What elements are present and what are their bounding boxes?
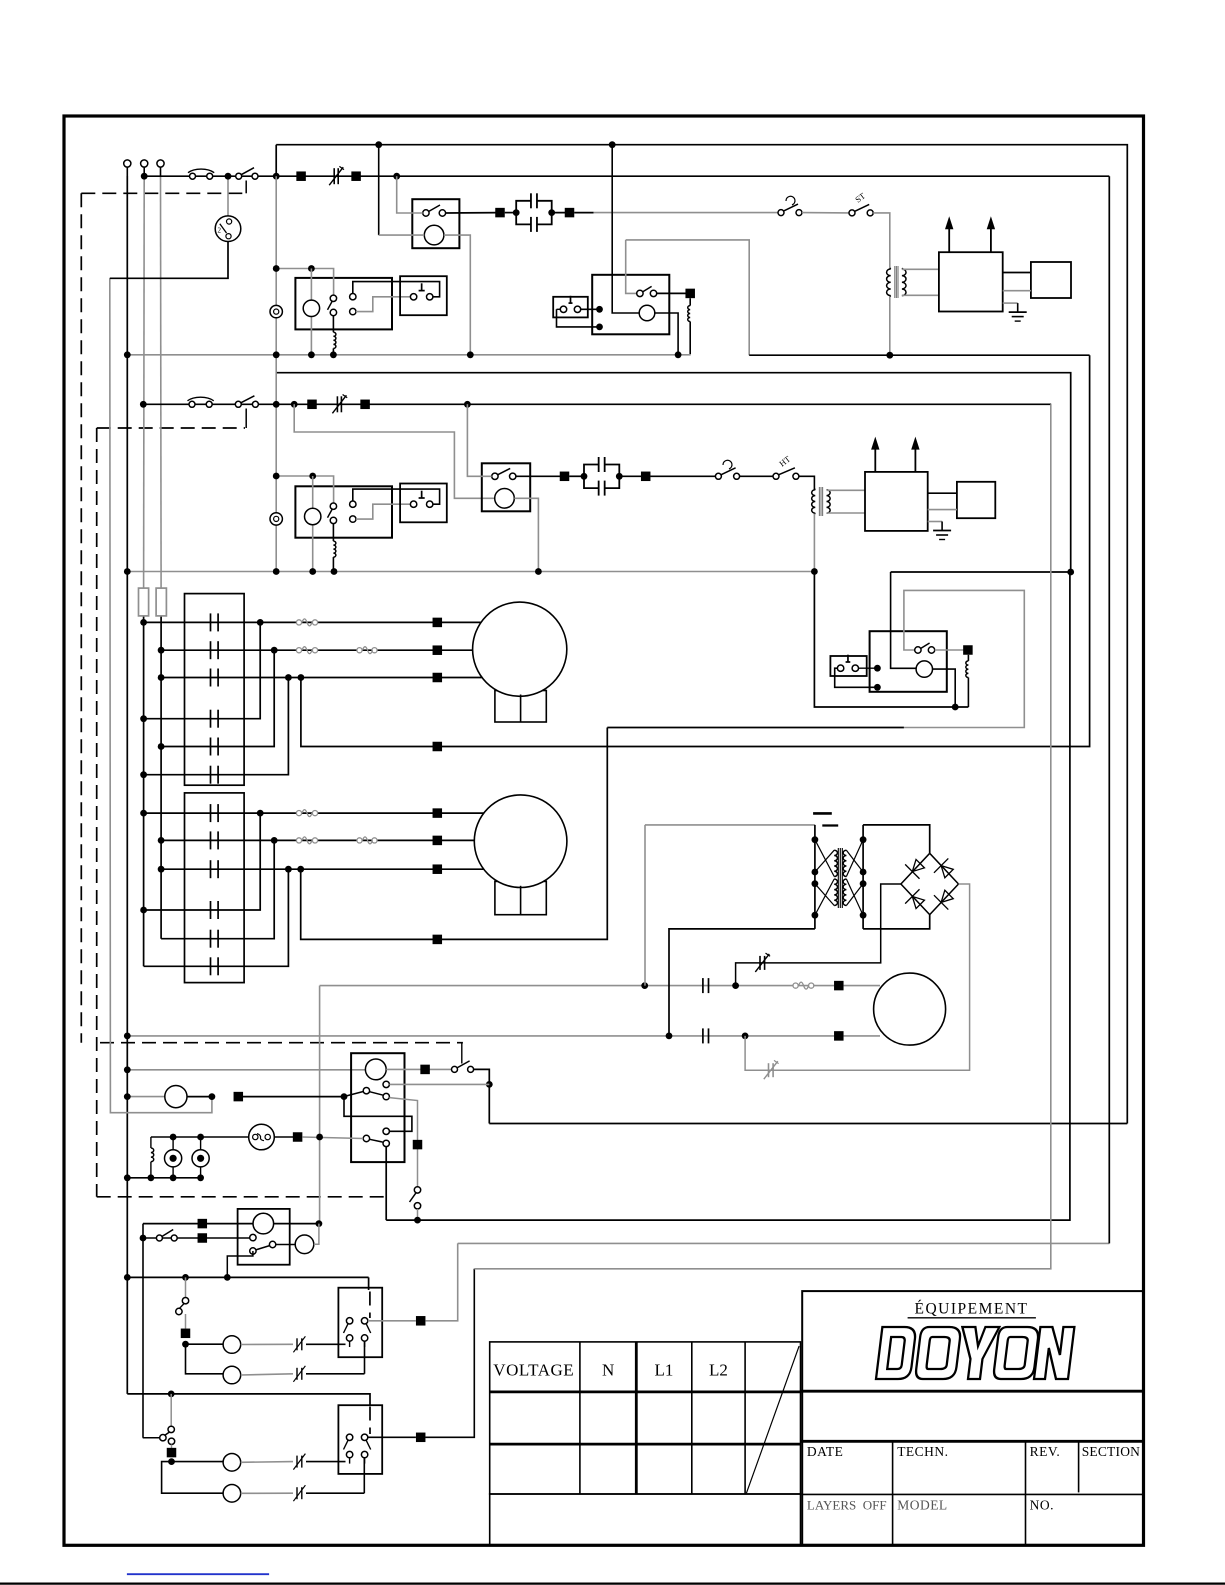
wires module to burner (section2) (928, 493, 957, 509)
R2 aux-a wire loop to pushbutton PB3 (353, 489, 440, 504)
node dot y1035.9 x669 (666, 1033, 673, 1040)
bus x110 from fan switch (110, 278, 212, 1112)
motor M1 circle (473, 602, 567, 696)
supply terminal L3 (157, 160, 164, 176)
oven-light switch return link (227, 1251, 253, 1277)
dashed enclosure 2 (mechanical link, section 2) (97, 428, 386, 1197)
node dot x171.5 y1461.6 (168, 1458, 175, 1465)
RD common terminal to riser (gray) (383, 1081, 489, 1087)
gray control wire y1069.8 from bus (127, 1069, 365, 1071)
hood feed wire y985.6 (gray) (320, 985, 834, 987)
node dot y404.3 x294.2 (291, 401, 298, 408)
oven light lamp circle (253, 1213, 274, 1234)
NC slash contact on y1070.2 (764, 1060, 779, 1079)
terminal square y176 x301 (296, 171, 306, 181)
node dot y176 x276.2 (273, 173, 280, 180)
TC bottom wire to bridge (863, 915, 930, 929)
R1 contact lower lead + heater coil to rail (333, 316, 336, 355)
label TECHN. (897, 1444, 948, 1459)
series capacitor on y1035.9 (703, 1028, 709, 1043)
voltage table bottom row box (490, 1494, 801, 1545)
svg-text:2: 2 (218, 227, 222, 235)
RD contact1 (346, 1088, 389, 1100)
buzzer resistor coil (151, 1137, 154, 1178)
bridge diode D4 (934, 887, 956, 909)
node dot x319.6 y1137 (316, 1134, 323, 1141)
dashed link to thermostat switch (100, 1042, 463, 1044)
socket circle (295, 1235, 314, 1254)
contact plates r9 (211, 860, 219, 878)
label REV. (1030, 1444, 1061, 1459)
contactor row r11 (links up to r8) (161, 840, 274, 938)
contactor row r3 wire ->motor1 (158, 674, 437, 681)
voltage column divider 1 (579, 1342, 581, 1494)
NC slash on wire A1 (293, 1336, 305, 1352)
phase indicator lamp section2 (270, 513, 282, 525)
node dot x417.5 y1220.1 (414, 1217, 421, 1224)
R2 contact lower lead + heater coil to rail (333, 524, 335, 572)
wire y476.3 to switches (section2) (650, 475, 715, 477)
node dot y572 x1070.7 (1067, 569, 1074, 576)
svg-text:DATE: DATE (807, 1444, 844, 1459)
NC slash on wire B1 (293, 1454, 305, 1470)
bridge diode D3 (905, 889, 927, 911)
contact plates r10 (211, 901, 219, 919)
terminal square r2 (433, 645, 443, 655)
bus L2 (x160.4) upper (160, 176, 163, 588)
RD contact2 output riser x386.2 to y1220.1 (385, 1147, 387, 1221)
lamp wire A1 y1344.2 (186, 1336, 346, 1354)
terminal square x690.2 y293.4 (685, 289, 695, 299)
key switch output to square (274, 1136, 297, 1138)
burner box (section2) (957, 482, 995, 518)
pushbutton PB1 box (section1) (400, 276, 447, 315)
dashed enclosure 1 (mechanical link, fan section) (81, 193, 245, 1042)
hyperlink underline (blue) (127, 1573, 269, 1575)
PB4 terminal dots and wiring (835, 665, 881, 691)
TC bottom-left return to y928.9 wire (669, 929, 815, 1036)
node dot on y144.7 at x612.2 (609, 141, 616, 148)
label VOLTAGE (493, 1361, 574, 1380)
terminal square x185.5 y1333.3 (181, 1329, 191, 1339)
oven light internal switch (250, 1234, 276, 1254)
NC slash on wire A2 (293, 1366, 305, 1382)
interlock switch (vertical) x417.5 (410, 1187, 421, 1209)
feed to K1 coil from y144.7 (riser x378.7) (379, 145, 425, 235)
overload heater r2b (357, 647, 377, 654)
M1C contact (637, 286, 657, 296)
node dot y1069.8 x127.3 (124, 1066, 131, 1073)
contact plates r6 (211, 766, 219, 784)
label L1 (655, 1361, 674, 1380)
RD switch output to riser x489.3 (474, 1069, 490, 1123)
R1 coil circle (303, 300, 319, 316)
svg-text:LAYERS OFF: LAYERS OFF (807, 1498, 887, 1513)
supply terminal L2 (141, 160, 148, 176)
thermostat switch ST (section1) (849, 204, 873, 216)
terminal square x202.3 y1238 (198, 1233, 208, 1243)
node dots y1277.4 (124, 1274, 231, 1281)
main loop wire y1123.5 to x1127.3 (489, 1123, 1127, 1125)
R2 coil riser x312.7 (312, 476, 314, 572)
node dot x955.2 y707 (952, 704, 959, 711)
terminal square y1035.9 (834, 1031, 844, 1041)
node dot y268.5 x311.4 (308, 265, 315, 272)
K3 contact (915, 643, 935, 653)
relay K3 feed from y572 corner (891, 572, 917, 668)
wire from HT down to transformer T2 primary (799, 476, 814, 489)
TC primary winding lower (834, 879, 837, 906)
riser x814.4 from rail down to relay K3 return (814, 572, 968, 708)
node dot y985.6 x644.7 (641, 982, 648, 989)
node dot y1035.9 x745.1 (742, 1033, 749, 1040)
box B contacts (344, 1434, 371, 1463)
R1 aux-a wire loop to pushbutton PB1 (353, 282, 440, 297)
contact box A (338, 1288, 382, 1358)
node dots y1177.8 (124, 1174, 204, 1181)
node dot y1096.6 x127.3 (124, 1093, 131, 1100)
label NO. (1030, 1498, 1054, 1513)
overload heater r8b (357, 837, 377, 844)
lamp wire B2 y1493.2 (162, 1462, 365, 1503)
overload heater r7 (296, 810, 317, 817)
wires module to burner (section1) (1003, 273, 1031, 291)
terminal square x500 y212.6 (495, 208, 505, 218)
bridge left output via NC contact to y985.6 (736, 884, 901, 986)
title block thin separator 3 (802, 1493, 1143, 1495)
oven light box (238, 1209, 290, 1265)
node dot y268.5 x276.2 (273, 265, 280, 272)
overload heater r2a (296, 647, 317, 654)
node dot x185.5 y1344.2 (182, 1341, 189, 1348)
terminal square y746.5 (433, 742, 443, 752)
pilot lamp (steam) circle (127, 1086, 212, 1108)
terminal square y176 x356 (351, 171, 361, 181)
RD contact2 top terminal (383, 1128, 389, 1134)
voltage column divider 4 (744, 1342, 746, 1494)
wire section1 top loop y144.7 (276, 145, 1127, 1124)
gray wire to RD contact2 (302, 1137, 363, 1139)
rail wire y354.8 (section1 bottom, gray) (127, 354, 690, 356)
interlock wire from r9 via y939.4 to section3 loop (301, 869, 437, 939)
door switch on y1238 (156, 1230, 177, 1242)
contactor block 1 rectangle (185, 594, 245, 786)
TC secondary winding lower (843, 879, 846, 906)
gray wire y1243.4 to riser x1110.1 (458, 1242, 1110, 1244)
relay K1 pilot contact (423, 205, 446, 216)
limit switch S2b (715, 460, 739, 479)
node dot x489.3 y1084.4 (486, 1081, 493, 1088)
electrode arrow 1 (section2) (871, 437, 879, 472)
riser x612.2 from y144.7 into coil box (612, 145, 639, 313)
relay K3 box (870, 631, 947, 692)
rail y355.2 black segment right (749, 354, 1089, 356)
gray branch y239.9 from y212.6 wire region (626, 240, 637, 294)
terminal square y404.3 x365 (360, 400, 370, 410)
terminal square x967.9 y650 (963, 645, 973, 655)
contact box B (338, 1405, 382, 1474)
svg-text:VOLTAGE: VOLTAGE (493, 1361, 574, 1380)
R1 aux-b wire to pushbutton PB1 (356, 297, 410, 312)
contactor coil box M1C (section1) (592, 275, 669, 335)
M1C circle output to rail (655, 313, 678, 355)
node dot bus L1 y404.3 (140, 401, 147, 408)
terminal square x417.5 y1144.6 (413, 1140, 423, 1150)
spark module box (section2) (865, 472, 928, 531)
svg-text:SECTION: SECTION (1082, 1444, 1140, 1459)
label ST (853, 190, 868, 204)
bridge right output via breaker to y1035.9 (745, 884, 970, 1070)
RD coil circle (365, 1059, 386, 1080)
label LAYERS OFF (807, 1498, 887, 1513)
svg-text:TECHN.: TECHN. (897, 1444, 948, 1459)
run capacitor pair C2 (section2) (581, 457, 623, 496)
voltage table thick row line 1 (490, 1391, 801, 1394)
black wire y1220.1 to riser x1069.9 (386, 572, 1070, 1220)
motor M1 feet divider (520, 695, 522, 723)
contactor row r12 (links up to r9) (144, 869, 289, 966)
T1 primary continues down to rail y354.8 (889, 297, 891, 355)
fuse FU2 on y404.3 (188, 397, 214, 407)
mech-link bracket at switch S1a (245, 181, 247, 194)
relay RD box (351, 1053, 404, 1162)
contact plates r4 (211, 710, 219, 728)
contact plates r3 (211, 669, 219, 687)
terminal square r9 (433, 864, 443, 874)
motor M1 mounting feet (495, 691, 546, 723)
contactor row r2 wire L2->motor1 (158, 647, 437, 654)
node dot y404.3 x276.2 (273, 401, 280, 408)
bridge diode D2 (934, 858, 956, 880)
burner box (section1) (1031, 262, 1071, 298)
node dot y1096.6 x211.9 (209, 1093, 216, 1100)
disconnect switch S2a on y404.3 (235, 396, 258, 408)
title block thick separator 2 (801, 1440, 1144, 1443)
contact plates r1 (211, 613, 219, 631)
title block thick separator 1 (801, 1390, 1144, 1393)
feed to K2 contact from y404.3 (gray riser x467.4) (467, 404, 491, 476)
electrode arrow 2 (section2) (911, 437, 919, 472)
wire y1268.8 to riser x1051.2 (gray) (474, 404, 1051, 1269)
DOYON logo outline letters (876, 1327, 1074, 1379)
voltage table thick row line 2 (490, 1443, 801, 1446)
voltage column divider 3 (691, 1342, 693, 1494)
R2 aux-b wire to pushbutton PB3 (356, 504, 410, 519)
contact plates r2 (211, 641, 219, 659)
feed to K1 contact from y176 (gray riser x396.7) (397, 176, 423, 213)
wire y212.6 to limit switches (574, 212, 778, 214)
gray wire y824.9 to transformer left bus (645, 824, 815, 826)
node dot x318.9 y1223.6 (316, 1220, 323, 1227)
R2 auxiliary contact a (350, 501, 356, 507)
contact plates r11 (211, 930, 219, 948)
transformer T2 secondary winding (827, 490, 831, 514)
node dot x143 y1238 (140, 1235, 147, 1242)
terminal square x297.6 y1137 (293, 1132, 303, 1142)
terminal square y985.6 (834, 981, 844, 991)
ground symbol (section2) (928, 522, 951, 540)
buzzer B1 (165, 1137, 182, 1178)
contact plates r7 (211, 804, 219, 822)
M1C coil circle (639, 305, 655, 321)
terminal square x425 y1069.4 (420, 1065, 430, 1075)
oven light switch wire y1238 (143, 1237, 250, 1239)
bus L2 (x160.4) lower (160, 616, 162, 939)
T2 primary continues to rail dot y571.5 (813, 514, 815, 572)
TC left cross-links (815, 840, 834, 916)
relay R2 box (section2 wide relay) (295, 486, 392, 537)
node dot y476 x276.2 (273, 473, 280, 480)
K1 coil output to bottom rail (444, 235, 470, 355)
wire y1277.4 drop into contact box A (369, 1277, 370, 1318)
node dot y404.3 x467.4 (464, 401, 471, 408)
ground symbol (section1) (1003, 303, 1027, 321)
rail wire y571.5 (section2 bottom, gray) (127, 571, 814, 573)
motor M2 feet divider (520, 886, 522, 915)
K1 contact output wire to capacitor pair (446, 212, 500, 214)
wire y1393.9 (group B feed) (127, 1394, 370, 1405)
node dots on rail y571.5 (124, 568, 818, 575)
wire lamp to RD contact1 (243, 1093, 347, 1100)
wire section2 top loop y372.7 (277, 373, 1071, 572)
terminal square y939.4 (433, 935, 443, 945)
wire from ST switch down to transformer T1 primary (873, 213, 890, 268)
T2 secondary wires to spark module 2 (827, 490, 866, 513)
node dot y476 x312.7 (309, 473, 316, 480)
motor M2 mounting feet (495, 881, 546, 914)
K3 contact output to terminal square (935, 649, 968, 651)
buzzer bottom wire y1177.8 (127, 1177, 200, 1179)
wire to socket circle (276, 1244, 295, 1246)
K3 coil circle (916, 661, 932, 677)
key switch circle (249, 1124, 275, 1150)
contactor row r10 (links up to r7) (140, 813, 260, 913)
PB2 terminal dots and wiring (557, 306, 603, 330)
contactor block 2 rectangle (185, 793, 245, 983)
pushbutton PB3 box (section2) (400, 484, 447, 523)
spark module box (section1) (939, 252, 1003, 311)
title block column REV/SECTION (1078, 1441, 1080, 1492)
pushbutton PB4 box (section3) (830, 655, 866, 676)
node dot y985.6 x735.6 (732, 982, 739, 989)
voltage table diagonal (746, 1346, 799, 1493)
svg-text:NO.: NO. (1030, 1498, 1054, 1513)
link from node x318.9 down to socket (314, 1224, 319, 1245)
contactor row r8 wire L2->motor2 (158, 837, 437, 844)
bus L1 (x143.7) upper (143, 176, 146, 588)
safety relay K1 box (section1) (412, 199, 459, 248)
black wire y572 right segment (891, 571, 1071, 573)
R2 coil circle (305, 508, 321, 524)
TC core (838, 848, 842, 908)
fan speed selector switch (2-speed) (215, 176, 241, 241)
hood feed riser x319.6 down to oven-light node (319, 986, 321, 1224)
heater circuit wire y746.5 to x1089.6 riser (442, 355, 1090, 746)
contact plates r8 (211, 831, 219, 849)
transformer T2 core (819, 487, 822, 516)
wire y1223.6 into oven-light box (143, 1223, 253, 1225)
interlock wire y939.4 to riser x607.3 (442, 728, 607, 940)
brand underline (908, 1317, 1036, 1319)
hood motor circle (874, 973, 946, 1045)
overload heater r8a (296, 837, 317, 844)
R2 auxiliary contact b (350, 516, 356, 522)
TC primary winding upper (834, 850, 837, 876)
title block column DATE/TECHN (892, 1441, 894, 1545)
relay K1 coil circle (424, 225, 444, 245)
bridge rectifier diamond (901, 853, 959, 914)
bus N (x127) (126, 176, 128, 1394)
fuse F1 (139, 588, 149, 616)
R1 coil riser x311.4 (310, 269, 312, 355)
wire A2 riser into box A (364, 1342, 366, 1374)
gray wire y239.9 to right loop (626, 240, 750, 355)
K3 relay coil (inductor) (966, 655, 969, 707)
terminal square x564.5 y476.3 (560, 472, 570, 482)
fan switch drop wire to x110 rail (110, 242, 228, 279)
label DATE (807, 1444, 844, 1459)
fuse FU1 on y176 (188, 169, 214, 179)
K2 contact output to capacitor pair (516, 475, 565, 477)
M1C contact output to coil terminal square (657, 292, 691, 294)
contactor row r6 (links up to r3) (140, 678, 288, 779)
terminal square r1 (433, 618, 443, 628)
node dot y1393.9 x171.2 (168, 1391, 175, 1398)
riser x276.2 section1 (to phase lamp and bottom rail) (275, 176, 277, 571)
terminal square x202.3 y1223.6 (198, 1219, 208, 1229)
page bottom edge line (0, 1582, 1225, 1584)
oven light feed bus x143 (local) (142, 1224, 144, 1366)
phase indicator lamp section1 (270, 305, 282, 317)
electrode arrow 2 (section1) (987, 216, 995, 252)
contactor row r9 wire ->motor2 (158, 866, 437, 873)
riser x1109.3 (to section1 line y176) (1108, 176, 1110, 1243)
contactor row r1 wire L1->motor1 (140, 619, 436, 626)
hood wire 2 y1035.9 (gray) (127, 1035, 834, 1037)
voltage table outline (490, 1342, 801, 1494)
transformer T1 secondary winding (902, 268, 906, 296)
transformer T1 primary winding (887, 268, 891, 297)
lamp wire B1 y1461.6 (172, 1454, 346, 1472)
selector switch A (176, 1277, 189, 1328)
overload heater on y985.6 (793, 982, 814, 989)
transformer T2 primary winding (812, 489, 816, 515)
series capacitor on y985.6 (703, 978, 709, 993)
R2 vertical contact (328, 503, 337, 524)
svg-text:MODEL: MODEL (897, 1498, 948, 1513)
selector switch B (143, 1366, 175, 1448)
TC right bus taps (860, 836, 867, 918)
NC contact with slash on y404.3 (332, 395, 347, 414)
node dot y176 x228 (225, 173, 232, 180)
terminal square y1096.6 x238.3 (234, 1092, 244, 1102)
wire section1 line y176 left span (144, 175, 1109, 177)
label SECTION (1082, 1444, 1140, 1459)
safety relay K2 box (section2) (482, 463, 530, 511)
wire y727.5 black from x607.3 (607, 727, 904, 729)
svg-text:REV.: REV. (1030, 1444, 1061, 1459)
node dot y176 x396.7 (393, 173, 400, 180)
T1 secondary wires to spark module (902, 269, 939, 295)
svg-text:L2: L2 (709, 1361, 728, 1380)
node dot bus L1 at y176 (141, 173, 148, 180)
RD contact2 (363, 1135, 389, 1146)
disconnect switch S1a on y176 (236, 168, 258, 180)
drawing border frame (64, 116, 1144, 1545)
supply terminal L1 (124, 160, 131, 176)
RD contact1 staple link to contact2 top (344, 1097, 412, 1132)
mech link bracket to dashed line (461, 1043, 463, 1064)
